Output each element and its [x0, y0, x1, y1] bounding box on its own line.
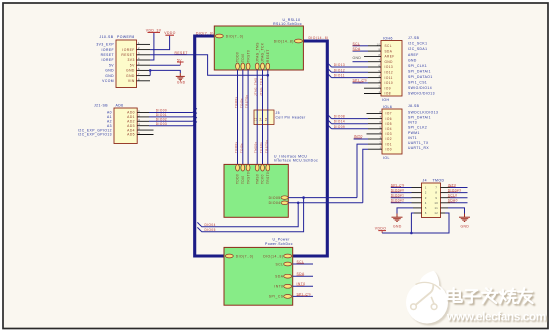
svg-text:IO9: IO9	[385, 86, 391, 90]
wire UART RX (J8 row8 down)	[363, 149, 368, 203]
J21 pin names	[127, 111, 135, 137]
svg-text:POWER8: POWER8	[117, 35, 135, 39]
RSL10 bottom pin names	[236, 42, 270, 62]
svg-text:INT0: INT0	[274, 285, 283, 289]
net label SPI_CS	[297, 292, 312, 296]
svg-text:AD6: AD6	[116, 104, 124, 108]
wire SPI_CS stub	[293, 295, 313, 297]
svg-text:DIO(14..8): DIO(14..8)	[263, 254, 283, 258]
svg-text:IO12: IO12	[385, 71, 394, 75]
ground symbol (power header)	[176, 73, 185, 81]
svg-text:IO13: IO13	[385, 65, 394, 69]
svg-text:GND: GND	[126, 69, 135, 73]
svg-text:TRST0s: TRST0s	[245, 95, 249, 108]
ground symbol (J4 right)	[459, 214, 470, 222]
svg-text:6: 6	[425, 211, 427, 215]
J8 pin stubs	[367, 114, 383, 150]
svg-text:IO0: IO0	[386, 147, 392, 151]
svg-text:SPI1_CS1: SPI1_CS1	[408, 81, 427, 85]
svg-text:SDA: SDA	[275, 275, 284, 279]
net label INT0	[297, 282, 306, 286]
svg-text:DIO(7..0): DIO(7..0)	[236, 254, 254, 258]
svg-text:GND: GND	[177, 81, 186, 85]
svg-text:IOREF: IOREF	[102, 58, 114, 62]
wire TDI	[242, 70, 244, 165]
net label SCL	[297, 260, 305, 264]
svg-text:GND: GND	[126, 74, 135, 78]
svg-text:JTAG_TMS: JTAG_TMS	[254, 78, 258, 96]
svg-text:DIO03: DIO03	[156, 122, 167, 126]
svg-text:SDA: SDA	[385, 49, 393, 53]
MCU top pins	[236, 164, 270, 171]
svg-text:I2C_SDA1: I2C_SDA1	[408, 47, 427, 51]
bus DIO(14..8)	[293, 41, 328, 256]
svg-text:GND: GND	[461, 225, 470, 229]
svg-text:GND: GND	[105, 74, 114, 78]
RSL10 pin DIO(7..0)	[215, 34, 243, 38]
wire SCL stub	[293, 263, 313, 265]
svg-text:SPI_CS: SPI_CS	[269, 295, 284, 299]
J7 right node labels	[408, 36, 435, 95]
wire DIO043 (J4 right)	[450, 192, 468, 194]
J8 right node labels	[408, 104, 438, 150]
svg-text:IO4: IO4	[386, 127, 392, 131]
svg-text:IO10: IO10	[385, 81, 394, 85]
svg-text:AREF: AREF	[385, 55, 395, 59]
J4 pin numbers right column	[434, 186, 438, 216]
svg-text:JTAG_TMS: JTAG_TMS	[255, 42, 259, 62]
svg-text:2: 2	[425, 191, 427, 195]
U_RSL10 title	[273, 18, 302, 26]
Power pin INT0	[274, 284, 291, 288]
connector J4 body	[422, 183, 441, 218]
svg-text:DIO01: DIO01	[156, 113, 167, 117]
svg-text:4: 4	[425, 201, 427, 205]
svg-text:9: 9	[435, 196, 437, 200]
svg-text:AD5: AD5	[127, 133, 135, 137]
svg-text:Cell Pin Header: Cell Pin Header	[276, 116, 307, 120]
svg-text:IOREF: IOREF	[102, 48, 114, 52]
svg-text:SPI_DATAO1: SPI_DATAO1	[408, 75, 433, 79]
wire 5V from pin5	[150, 64, 180, 66]
svg-text:TDO0s: TDO0s	[234, 141, 238, 153]
wire VDDO rail	[382, 213, 449, 233]
svg-text:DIO02: DIO02	[156, 118, 167, 122]
svg-text:IOH: IOH	[382, 98, 390, 102]
svg-text:DIO11: DIO11	[334, 74, 345, 78]
svg-text:SWIO/DIO14: SWIO/DIO14	[408, 86, 432, 90]
wire DIO05 from MCU	[288, 197, 357, 199]
svg-text:RESET: RESET	[121, 53, 134, 57]
svg-text:I2C_EXP_GPIO13: I2C_EXP_GPIO13	[78, 133, 112, 137]
svg-text:VDD_3V: VDD_3V	[146, 28, 162, 32]
svg-text:IO11: IO11	[385, 76, 393, 80]
J5 pin marks	[254, 117, 268, 121]
wire SCL0 (J4 right)	[450, 197, 468, 199]
svg-text:IO8: IO8	[385, 92, 391, 96]
power symbol VDDO (J4)	[375, 227, 386, 233]
svg-text:DIO05: DIO05	[269, 196, 281, 200]
wires crossing J5	[257, 110, 268, 125]
J7 pin numbers	[377, 43, 381, 94]
svg-text:GND: GND	[353, 56, 362, 60]
connector J21 AD6 body	[114, 108, 137, 144]
wire DIO13 (J7) with bus entry	[328, 63, 369, 67]
svg-text:DIO14: DIO14	[334, 120, 345, 124]
svg-text:VDDO: VDDO	[164, 31, 175, 35]
svg-text:DIO13: DIO13	[334, 63, 345, 67]
RSL10 pin DIO(14..8)	[274, 39, 303, 43]
Power pin DIO(7..0)	[225, 254, 253, 258]
net label SCL0	[448, 194, 458, 198]
junction DIO05	[302, 196, 305, 199]
svg-text:VCOM: VCOM	[102, 79, 114, 83]
svg-text:TMOD: TMOD	[433, 179, 445, 183]
svg-text:INT1: INT1	[408, 136, 417, 140]
wire GND pins 6+7 tie	[150, 70, 180, 75]
watermark logo trace	[416, 284, 434, 305]
watermark logo pad 2	[431, 304, 437, 310]
sheet symbol U_RSL10 body	[214, 26, 303, 70]
net label DIO040	[391, 188, 405, 192]
net label SPI_CS (J7)	[353, 78, 368, 82]
svg-text:3V3_EXP: 3V3_EXP	[96, 43, 114, 47]
connector J10 POWER8 body	[116, 40, 137, 88]
svg-text:J5: J5	[276, 111, 280, 115]
svg-text:AD1: AD1	[127, 115, 135, 119]
svg-text:IOL: IOL	[383, 156, 390, 160]
wire RESET vertical	[267, 70, 269, 165]
svg-text:AD3: AD3	[127, 124, 135, 128]
svg-text:DIO05: DIO05	[205, 228, 216, 232]
net label SDA0	[448, 199, 458, 203]
svg-text:www.elecfans.com: www.elecfans.com	[446, 310, 546, 324]
net label DIO043	[448, 188, 462, 192]
wire TMS	[256, 70, 258, 165]
MCU top pin names	[236, 172, 270, 184]
svg-text:IO6: IO6	[386, 117, 392, 121]
connector J7 body	[381, 41, 402, 97]
svg-text:SPI_DATAI1: SPI_DATAI1	[408, 69, 431, 73]
J4 left stubs	[412, 188, 422, 214]
wire J4 pin5 to ground	[397, 208, 413, 214]
svg-text:RSL10.SchDoc: RSL10.SchDoc	[273, 22, 302, 26]
svg-text:GND: GND	[408, 58, 417, 62]
svg-text:AD0: AD0	[127, 111, 135, 115]
watermark logo leaf shadow	[421, 273, 441, 295]
svg-text:DIO04: DIO04	[205, 223, 216, 227]
wire DIO04 from MCU	[288, 202, 363, 204]
net label INT0 (J4)	[448, 183, 457, 187]
svg-text:SPI_CLK2: SPI_CLK2	[408, 126, 427, 130]
svg-text:TCK0s: TCK0s	[259, 142, 263, 153]
svg-text:J4: J4	[423, 179, 428, 183]
svg-text:I2C_EXP_GPIO12: I2C_EXP_GPIO12	[78, 128, 112, 132]
junction RESET	[267, 74, 270, 77]
svg-text:GND: GND	[385, 60, 394, 64]
U_Power title	[265, 238, 293, 246]
svg-text:1: 1	[425, 186, 427, 190]
wire SPI_CS (J7)	[353, 82, 369, 84]
svg-text:Interface MCU.SchDoc: Interface MCU.SchDoc	[274, 159, 318, 163]
wire DIO11 (J7) with bus entry	[328, 73, 369, 77]
wire INT0 (J8)	[354, 138, 368, 140]
net label DIO042	[391, 199, 405, 203]
svg-text:I2C_SCK1: I2C_SCK1	[408, 42, 427, 46]
connector J10 title	[100, 35, 135, 39]
net label INT0 (J8)	[354, 135, 363, 139]
svg-text:J7-SB: J7-SB	[408, 36, 420, 40]
wire SDA stub	[293, 275, 313, 277]
svg-text:JTAG_TCK: JTAG_TCK	[259, 78, 263, 96]
svg-text:VDDO: VDDO	[375, 227, 386, 231]
net label SCL (J7)	[353, 42, 361, 46]
svg-text:IOH6: IOH6	[383, 37, 393, 41]
Power pin SPI_CS	[269, 295, 292, 299]
wire J4 pin11 to ground	[448, 208, 465, 214]
net label SDA	[297, 272, 306, 276]
svg-text:3: 3	[425, 196, 427, 200]
svg-text:TDI0: TDI0	[241, 175, 245, 184]
svg-text:VIN: VIN	[128, 79, 135, 83]
svg-text:A3: A3	[107, 124, 112, 128]
svg-text:TRST0: TRST0	[266, 172, 270, 184]
MCU pin DIO04	[269, 201, 289, 205]
svg-text:TRST0: TRST0	[246, 172, 250, 184]
svg-text:GND: GND	[393, 225, 402, 229]
J7 pin names	[385, 44, 395, 96]
svg-text:SWDCLK/DIO13: SWDCLK/DIO13	[408, 110, 438, 114]
wire SDA (J7)	[353, 50, 369, 52]
J5 title	[276, 111, 307, 120]
svg-text:IO3: IO3	[386, 132, 392, 136]
net label SDA (J7)	[353, 47, 362, 51]
wire DIO042 (J4)	[391, 202, 412, 204]
net labels DIO00-DIO03	[156, 109, 167, 126]
wire DIO08 (J8) with bus entry	[328, 114, 369, 118]
svg-text:J10-SB: J10-SB	[100, 35, 114, 39]
svg-text:DIO(7..0): DIO(7..0)	[226, 34, 244, 38]
bus entries AD wires	[193, 108, 197, 125]
svg-text:PWM1: PWM1	[408, 131, 420, 135]
svg-text:11: 11	[435, 206, 439, 210]
wire DIO04 to bus	[197, 203, 298, 227]
wire DIO05 to bus	[197, 198, 303, 232]
svg-text:5: 5	[425, 206, 427, 210]
svg-text:TRST0s: TRST0s	[264, 140, 268, 153]
wire DIO12 (J7) with bus entry	[328, 68, 369, 72]
wire INT0 (J4 right)	[450, 187, 468, 189]
wire UART TX (J8 row7 down)	[357, 144, 368, 198]
J10 pin numbers 1-8	[138, 41, 140, 81]
wire SCL (J7)	[353, 45, 369, 47]
J10 pin names	[121, 48, 135, 83]
wire INT0 stub	[293, 285, 313, 287]
RSL10 bottom pins (JTAG)	[236, 63, 270, 70]
header J5 body	[254, 110, 274, 125]
svg-text:TMS0: TMS0	[255, 174, 259, 184]
svg-text:TDO0: TDO0	[236, 52, 240, 62]
J4 right stubs	[441, 188, 451, 214]
J4 title	[423, 179, 445, 183]
J8 pin numbers	[379, 111, 381, 150]
wire TCK	[262, 70, 264, 165]
watermark logo shadow	[408, 284, 450, 326]
U_Interface MCU title	[274, 154, 318, 162]
svg-text:IO1: IO1	[386, 142, 392, 146]
svg-text:TDI0s: TDI0s	[239, 143, 243, 153]
svg-text:SWDIO/DIO13: SWDIO/DIO13	[408, 92, 435, 96]
svg-text:AD2: AD2	[127, 120, 135, 124]
power symbol VDDO	[164, 31, 175, 35]
svg-text:UART1_TX: UART1_TX	[408, 141, 429, 145]
wire RESET from pin3 to RSL10 RESET line	[150, 55, 268, 75]
sheet symbol U_Power body	[224, 247, 293, 305]
net label DIO041	[391, 194, 405, 198]
svg-text:TDI0s: TDI0s	[239, 98, 243, 108]
J21 pin stubs	[137, 113, 153, 135]
svg-text:AD4: AD4	[127, 128, 135, 132]
bus DIO(7..0)	[195, 36, 224, 256]
svg-text:DIO09: DIO09	[334, 125, 345, 129]
svg-text:Power.SchDoc: Power.SchDoc	[265, 242, 293, 246]
Power pin DIO(14..8)	[263, 254, 291, 258]
svg-text:7: 7	[435, 186, 437, 190]
svg-text:3V3: 3V3	[127, 58, 134, 62]
sheet symbol U_Interface MCU body	[224, 164, 288, 217]
svg-text:TDO0: TDO0	[236, 174, 240, 184]
power symbol 5V	[177, 58, 184, 65]
svg-text:DIO12: DIO12	[334, 68, 345, 72]
J10 pin stubs	[137, 44, 151, 80]
svg-text:UART1_RX: UART1_RX	[408, 146, 429, 150]
svg-text:TRST0: TRST0	[246, 50, 250, 62]
wire DIO041 (J4)	[391, 197, 412, 199]
watermark logo circle	[406, 282, 448, 324]
J4 pin numbers left column	[425, 186, 427, 216]
wire DIO03	[149, 125, 193, 127]
watermark logo leaf	[419, 271, 439, 293]
wire DIO02	[149, 120, 193, 122]
svg-text:DIO08: DIO08	[334, 115, 345, 119]
svg-text:5V: 5V	[130, 63, 135, 67]
svg-text:RESET: RESET	[101, 53, 114, 57]
J7 pin stubs	[364, 46, 381, 94]
svg-text:12: 12	[434, 211, 438, 215]
svg-text:A2: A2	[107, 120, 112, 124]
svg-text:5V: 5V	[109, 63, 114, 67]
node labels left of J21	[78, 111, 112, 137]
ground symbol (J4 left)	[392, 214, 403, 222]
MCU pin DIO05	[269, 196, 289, 200]
watermark logo leaf notch	[416, 282, 441, 289]
svg-text:TDI0: TDI0	[241, 53, 245, 62]
wire DIO040 (J4)	[391, 192, 412, 194]
svg-text:SPI_CLK1: SPI_CLK1	[408, 64, 427, 68]
Power pin SCL	[276, 262, 292, 266]
wire SPI_CS (J4)	[391, 187, 412, 189]
svg-text:AREF: AREF	[408, 53, 419, 57]
node labels left of J10	[96, 43, 114, 83]
power symbol VDD_3V	[146, 28, 162, 32]
connector J8 body	[382, 109, 402, 154]
wire GND (J7)	[353, 61, 369, 63]
svg-text:GND: GND	[105, 69, 114, 73]
wire DIO01	[149, 116, 193, 118]
junction GND	[149, 69, 152, 72]
svg-text:TCK0: TCK0	[261, 174, 265, 184]
svg-text:SCL: SCL	[276, 262, 284, 266]
J21 pin numbers	[138, 109, 140, 135]
wire DIO00	[149, 112, 193, 114]
Power pin SDA	[275, 274, 292, 278]
svg-text:DIO(14..8): DIO(14..8)	[274, 39, 294, 43]
net label RESET	[175, 51, 188, 55]
svg-text:IOL6: IOL6	[383, 105, 392, 109]
wire TDO	[237, 70, 239, 165]
svg-text:JTAG_TCK: JTAG_TCK	[261, 42, 265, 62]
svg-text:DIO04: DIO04	[269, 201, 281, 205]
svg-text:SPI_DATAI1: SPI_DATAI1	[408, 116, 431, 120]
J8 pin names	[386, 112, 392, 152]
wire DIO14 (J8) with bus entry	[328, 120, 369, 124]
svg-text:10: 10	[434, 201, 438, 205]
svg-text:DIO(7..0): DIO(7..0)	[196, 32, 214, 36]
svg-text:SCL: SCL	[385, 44, 392, 48]
wire TRST	[247, 70, 249, 165]
junction DIO04	[297, 202, 300, 205]
svg-text:IO7: IO7	[386, 112, 392, 116]
svg-text:A1: A1	[107, 115, 112, 119]
svg-text:J21-SB: J21-SB	[94, 104, 108, 108]
wire J4 pin6 to VDDO rail	[411, 213, 414, 233]
net labels on JTAG wires upper	[234, 78, 263, 108]
svg-text:J8-SB: J8-SB	[408, 104, 420, 108]
svg-text:DIO(14..8): DIO(14..8)	[309, 36, 329, 40]
svg-text:TDO0s: TDO0s	[234, 96, 238, 108]
svg-text:RESET: RESET	[266, 49, 270, 62]
watermark logo trace 2	[431, 297, 434, 304]
net labels on JTAG wires lower	[234, 140, 268, 153]
watermark chinese white	[447, 288, 532, 303]
svg-text:IO2: IO2	[386, 137, 392, 141]
svg-text:TMS0s: TMS0s	[254, 141, 258, 153]
svg-text:IOREF: IOREF	[122, 48, 134, 52]
svg-text:8: 8	[435, 191, 437, 195]
wire VDDO to pin2	[150, 36, 170, 50]
watermark chinese shadow	[449, 290, 534, 305]
wire VDD_3V to pin4	[150, 33, 154, 60]
svg-text:INT3: INT3	[408, 121, 417, 125]
svg-text:A0: A0	[107, 111, 112, 115]
wire SDA0 (J4 right)	[450, 202, 468, 204]
svg-text:DIO00: DIO00	[156, 109, 167, 113]
connector J21 title	[94, 104, 124, 108]
svg-text:IO5: IO5	[386, 122, 392, 126]
wire DIO09 (J8) with bus entry	[328, 125, 369, 129]
watermark logo pad 1	[411, 304, 417, 310]
junction VDDO rail	[410, 232, 413, 235]
net label SPI_CS (J4)	[391, 183, 405, 187]
